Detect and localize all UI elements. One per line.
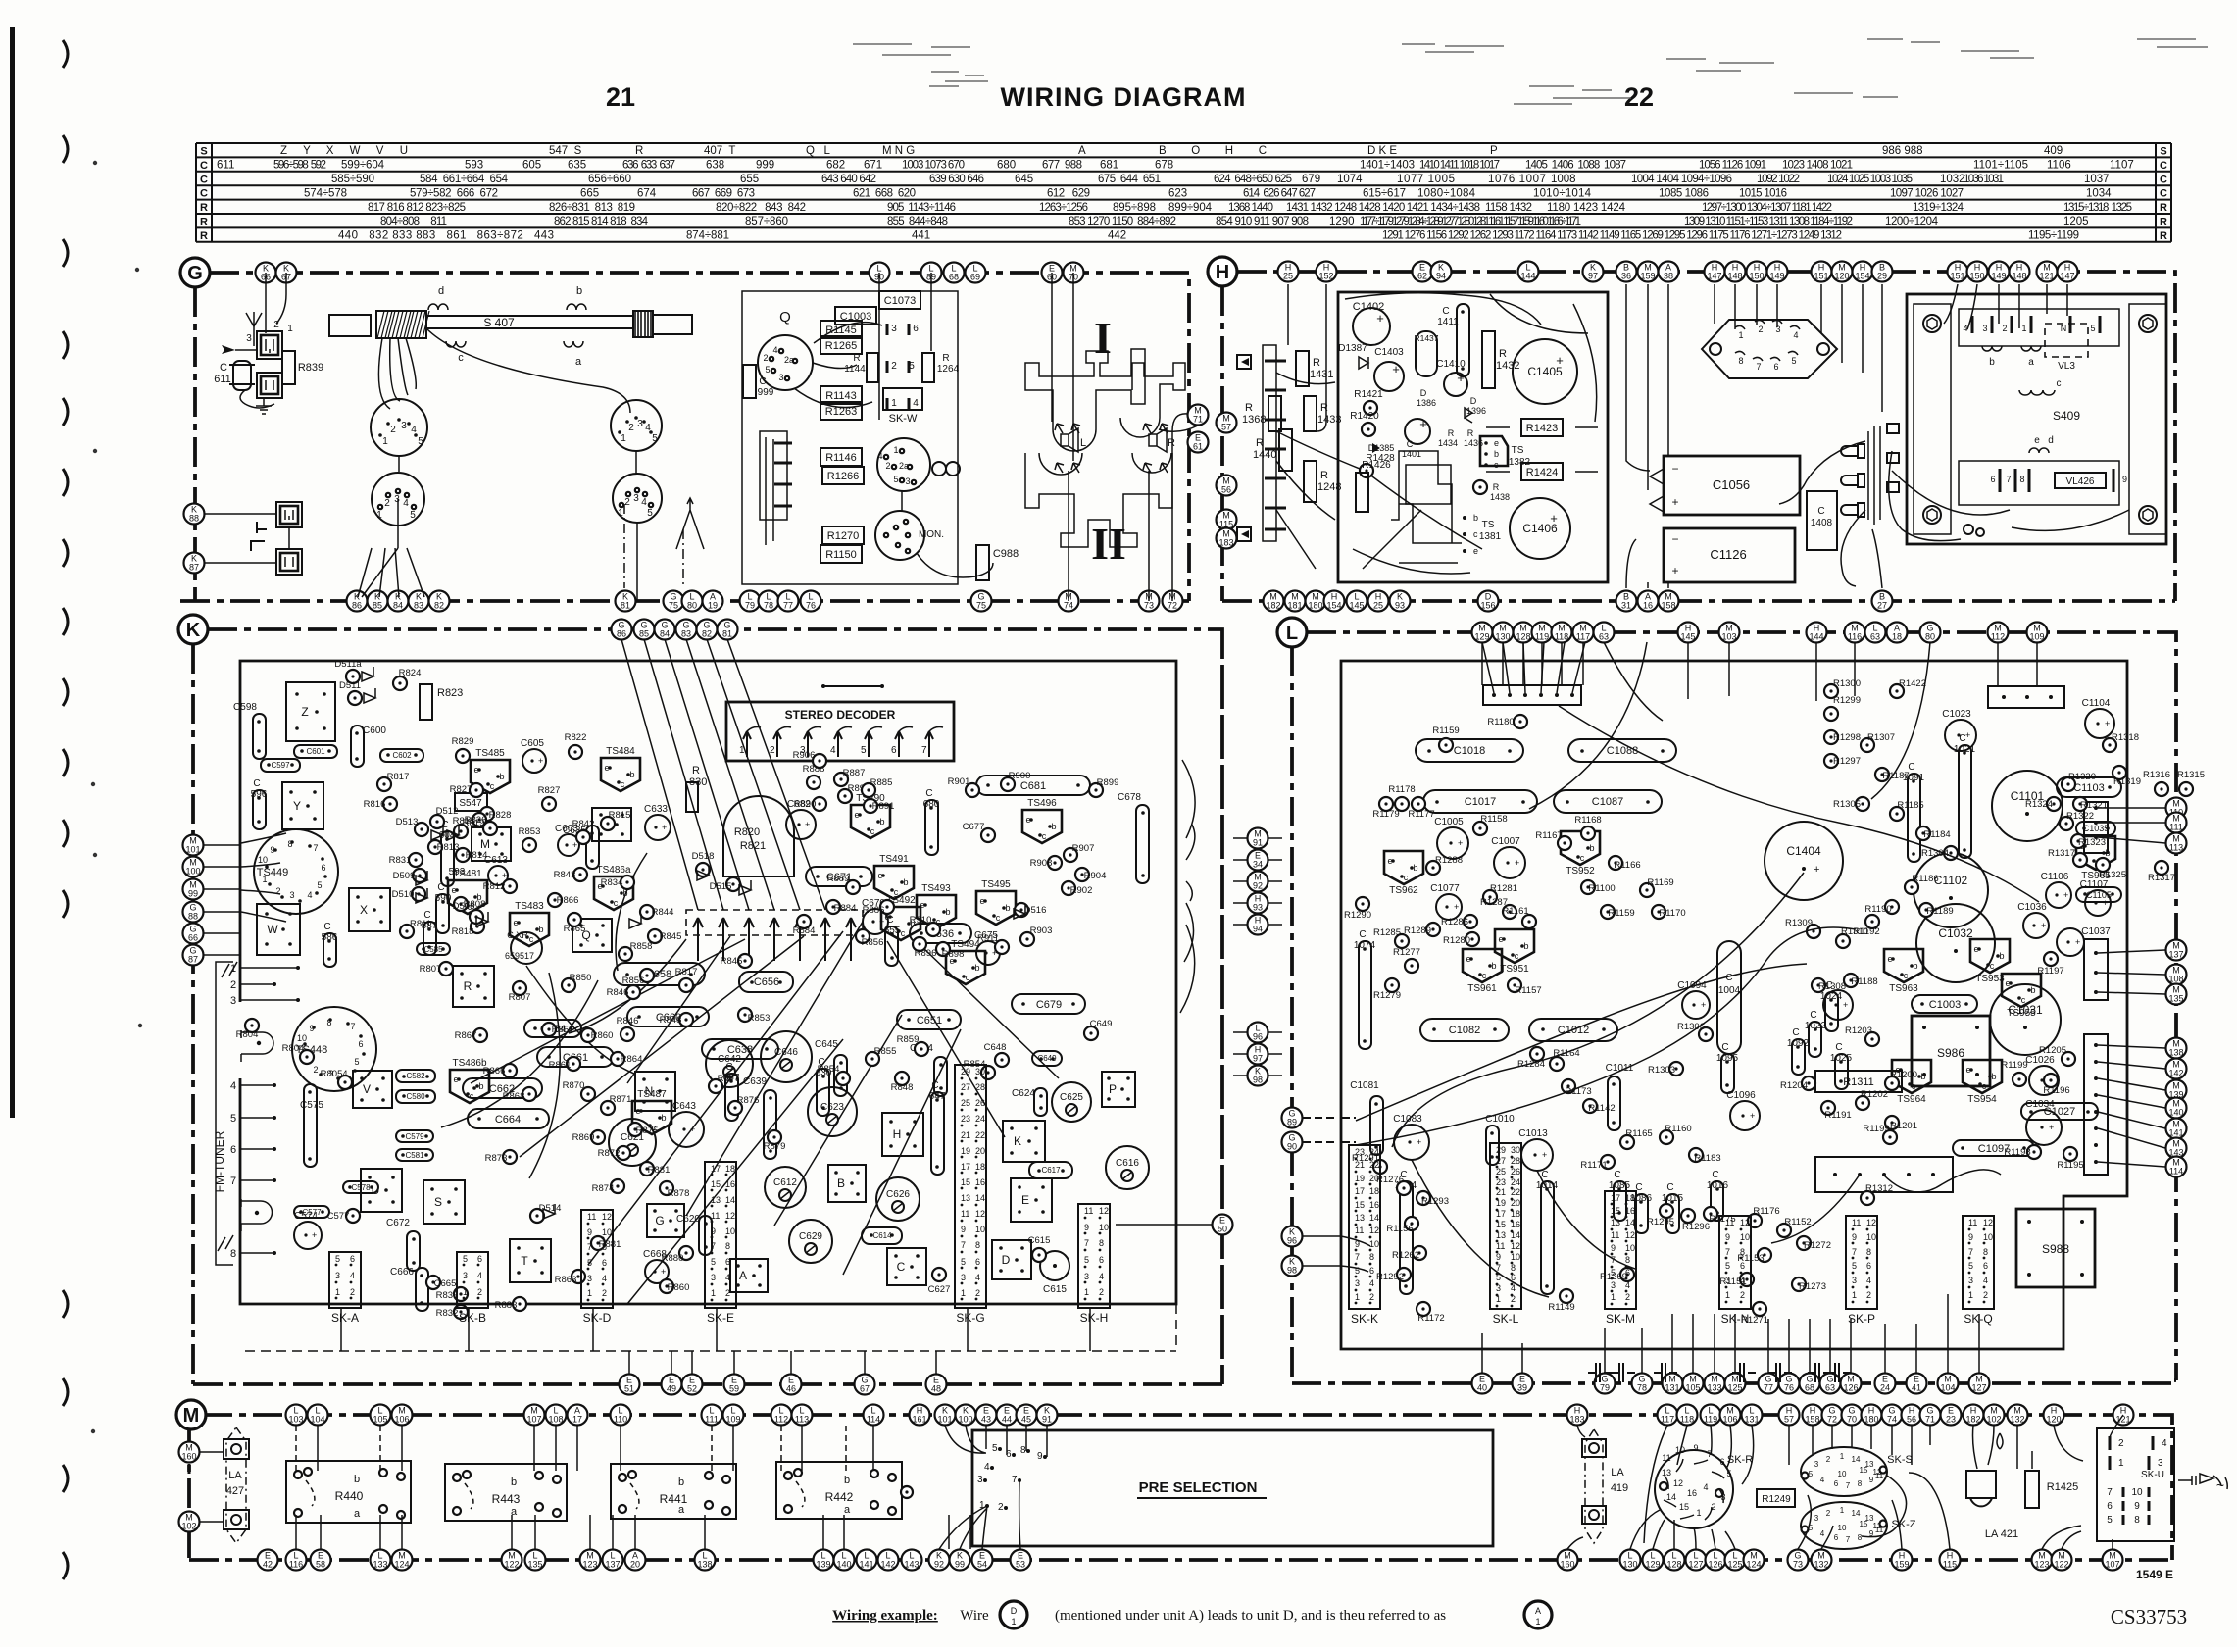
svg-text:C1404: C1404 (1786, 844, 1821, 858)
svg-text:+: + (538, 756, 543, 766)
node M102 (1984, 1405, 2005, 1426)
resistor R845 (738, 954, 752, 968)
svg-text:C575: C575 (300, 1100, 323, 1111)
svg-text:TS491: TS491 (879, 854, 909, 865)
rotary switch SK-R (1655, 1450, 1733, 1528)
svg-text:R1197: R1197 (2037, 966, 2063, 976)
resistor R1263 (820, 402, 862, 420)
svg-text:R1286: R1286 (1441, 917, 1468, 927)
node H97 (1248, 1044, 1268, 1065)
svg-text:C: C (1359, 929, 1366, 940)
svg-text:614 626 647 627: 614 626 647 627 (1243, 187, 1316, 199)
svg-text:101: 101 (937, 1415, 952, 1425)
svg-text:c: c (996, 913, 1001, 923)
svg-text:e: e (2034, 435, 2040, 446)
capacitor C611 (233, 361, 251, 390)
svg-text:7: 7 (230, 1176, 236, 1187)
svg-text:68: 68 (1805, 1383, 1814, 1393)
svg-text:+: + (1458, 838, 1463, 848)
svg-text:132: 132 (1814, 1560, 1828, 1570)
node L118 (1677, 1405, 1698, 1426)
svg-text:5: 5 (909, 361, 915, 372)
resistor R834 (621, 876, 634, 889)
svg-text:6: 6 (1369, 1266, 1374, 1276)
resistor R1423 (1521, 419, 1563, 436)
svg-text:R: R (464, 979, 472, 993)
svg-text:7: 7 (1756, 362, 1761, 372)
trimmer C616 (1106, 1146, 1149, 1189)
module E (1011, 1178, 1052, 1222)
svg-text:3: 3 (2158, 1458, 2163, 1469)
capacitor C1024 (1823, 990, 1853, 1020)
node M125 (1725, 1374, 1746, 1394)
svg-text:TS964: TS964 (1897, 1094, 1926, 1105)
ground (256, 398, 272, 414)
node M141 (2166, 1119, 2187, 1139)
svg-text:23: 23 (1355, 1147, 1365, 1157)
capacitor C672 (407, 1231, 420, 1271)
svg-text:149: 149 (1769, 272, 1784, 281)
svg-text:141: 141 (859, 1560, 873, 1570)
resistor R842 (576, 830, 590, 844)
node G67 (855, 1375, 875, 1395)
svg-text:C1003: C1003 (1929, 999, 1961, 1011)
svg-text:b: b (945, 907, 950, 917)
node M123 (580, 1550, 601, 1571)
unit K label (178, 615, 208, 644)
svg-text:4: 4 (1793, 330, 1798, 340)
L circuit board (1341, 661, 2127, 1349)
svg-text:R1308: R1308 (1818, 981, 1846, 992)
capacitor C678 (1136, 805, 1149, 883)
resistor R1285 (1395, 934, 1409, 948)
module T (510, 1239, 551, 1282)
svg-text:X: X (360, 903, 368, 917)
svg-text:23: 23 (1496, 1177, 1506, 1187)
svg-text:103: 103 (1721, 632, 1736, 642)
svg-text:D511: D511 (339, 680, 361, 691)
resistor R1202 (1856, 1096, 1869, 1110)
wire (205, 513, 276, 515)
capacitor C639 (764, 1090, 776, 1159)
resistor R817 (377, 777, 391, 791)
svg-text:5: 5 (335, 1254, 340, 1264)
svg-text:+: + (2105, 719, 2110, 728)
svg-text:25: 25 (961, 1098, 970, 1108)
svg-text:611: 611 (214, 374, 231, 385)
pad (901, 1486, 913, 1498)
svg-text:R817: R817 (675, 967, 698, 977)
node K83 (409, 591, 429, 612)
svg-text:99: 99 (955, 1560, 965, 1570)
relay R442 (776, 1462, 902, 1519)
svg-text:c: c (1404, 873, 1409, 882)
svg-text:C600: C600 (363, 726, 386, 736)
svg-text:R: R (853, 353, 860, 364)
node H148 (1725, 262, 1746, 282)
svg-text:9: 9 (1725, 1232, 1730, 1242)
resistor R886 (880, 900, 894, 914)
svg-text:C XR: C XR (507, 930, 528, 940)
svg-text:Wiring example:: Wiring example: (832, 1608, 938, 1624)
svg-text:2: 2 (313, 1065, 318, 1075)
svg-text:C1126: C1126 (1710, 547, 1746, 562)
svg-text:14: 14 (1852, 1455, 1861, 1464)
svg-text:R1198: R1198 (2004, 1147, 2030, 1158)
svg-text:30: 30 (975, 1067, 985, 1076)
svg-text:9: 9 (1611, 1243, 1616, 1253)
svg-text:R881: R881 (648, 1165, 671, 1176)
svg-text:1003 1073 670: 1003 1073 670 (902, 160, 965, 172)
svg-text:24: 24 (1369, 1147, 1379, 1157)
resistor R867 (473, 1028, 487, 1042)
module Y (282, 782, 323, 829)
capacitor C681 (976, 776, 1090, 795)
svg-text:584 661÷664 654: 584 661÷664 654 (420, 174, 509, 185)
binding marks (63, 40, 68, 68)
svg-text:R440: R440 (335, 1489, 364, 1503)
resistor R1168 (1581, 826, 1595, 840)
coil c (446, 341, 466, 347)
strip wires (341, 1308, 1090, 1351)
svg-text:1: 1 (382, 436, 388, 447)
node G87 (183, 945, 204, 966)
svg-text:c: c (1990, 961, 1995, 971)
svg-text:862 815 814 818 834: 862 815 814 818 834 (554, 216, 649, 227)
svg-text:R1188: R1188 (1851, 976, 1877, 987)
svg-text:TS483: TS483 (515, 901, 544, 912)
coil c (2019, 390, 2055, 395)
svg-text:SK-E: SK-E (707, 1311, 734, 1325)
svg-text:c: c (470, 1091, 474, 1101)
module Q (572, 919, 612, 952)
transistor TS1381 (1463, 516, 1466, 520)
svg-text:R: R (2160, 230, 2167, 242)
svg-text:C1035: C1035 (2083, 824, 2110, 833)
svg-text:636 633 637: 636 633 637 (622, 160, 675, 172)
svg-text:e: e (979, 896, 984, 906)
capacitor C638 (702, 1039, 778, 1059)
svg-text:C: C (2160, 160, 2167, 172)
svg-text:R864: R864 (621, 1054, 643, 1065)
wires S409 (1944, 284, 2067, 329)
svg-text:+: + (2041, 921, 2046, 930)
svg-text:R805: R805 (321, 1069, 343, 1079)
resistor R901 (966, 783, 979, 797)
svg-text:2: 2 (1625, 1292, 1630, 1302)
svg-text:R1159: R1159 (1608, 908, 1634, 919)
resistor C665 (426, 1276, 440, 1289)
svg-text:8: 8 (1511, 1263, 1516, 1273)
resistor R1198 (2027, 1145, 2041, 1159)
svg-text:5: 5 (1852, 1261, 1857, 1271)
capacitor C1082 (1420, 1019, 1509, 1041)
svg-text:111: 111 (2169, 823, 2183, 832)
svg-text:2: 2 (2002, 324, 2007, 333)
svg-text:9: 9 (1355, 1239, 1360, 1249)
svg-text:R872: R872 (598, 1148, 621, 1159)
node L133 (371, 1550, 391, 1571)
svg-text:3: 3 (905, 476, 910, 486)
svg-text:C585: C585 (423, 945, 443, 954)
fan wires from unit G (621, 639, 698, 910)
node M139 (2166, 1080, 2187, 1101)
svg-text:84: 84 (393, 601, 403, 611)
capacitor C1035 (2076, 822, 2115, 835)
svg-text:1200÷1204: 1200÷1204 (1885, 216, 1939, 227)
svg-text:TS955: TS955 (2007, 1008, 2036, 1019)
resistor R1153 (1758, 1248, 1771, 1262)
svg-text:SK-D: SK-D (583, 1311, 612, 1325)
svg-text:+: + (1542, 1150, 1547, 1160)
svg-text:14: 14 (1625, 1218, 1635, 1227)
svg-text:b: b (2030, 985, 2035, 995)
node L90 (870, 263, 890, 283)
resistor R885 (862, 783, 875, 797)
svg-text:C: C (253, 778, 260, 789)
svg-text:679: 679 (1302, 174, 1320, 185)
svg-text:R1285: R1285 (1373, 927, 1401, 938)
svg-text:8: 8 (1983, 1247, 1988, 1257)
svg-text:596÷598 592: 596÷598 592 (273, 160, 326, 172)
svg-text:e: e (1025, 815, 1030, 825)
svg-text:675 644 651: 675 644 651 (1098, 174, 1161, 185)
node E50 (1213, 1215, 1233, 1235)
svg-text:11: 11 (1662, 1453, 1670, 1463)
node E49 (662, 1375, 682, 1395)
resistor R1308 (1812, 978, 1825, 992)
svg-text:C1036: C1036 (2017, 902, 2047, 913)
unit L border (1292, 632, 2176, 1383)
resistor R826 (483, 822, 497, 835)
svg-text:8: 8 (725, 1241, 730, 1251)
svg-text:5: 5 (647, 508, 653, 519)
svg-text:6: 6 (1625, 1268, 1630, 1277)
resistor R906 (813, 754, 826, 768)
node K93 (1390, 591, 1411, 612)
resistor R1300 (1824, 684, 1838, 698)
svg-text:19: 19 (1355, 1174, 1365, 1183)
resistor R1281 (1483, 890, 1497, 904)
capacitor C1401 (1405, 419, 1430, 444)
node M116 (1845, 623, 1865, 643)
svg-text:a: a (2028, 357, 2034, 368)
node B36 (1616, 262, 1637, 282)
svg-text:826÷831 813 819: 826÷831 813 819 (549, 202, 635, 214)
capacitor C 630 (817, 1069, 829, 1116)
capacitor C1034 (2026, 1110, 2062, 1145)
svg-text:16: 16 (1511, 1220, 1520, 1229)
svg-text:79: 79 (1600, 1383, 1610, 1393)
svg-text:665: 665 (580, 187, 599, 199)
resistor R1273 (1792, 1277, 1806, 1291)
svg-text:11: 11 (1611, 1230, 1619, 1240)
node H115 (1940, 1550, 1961, 1571)
svg-text:999: 999 (758, 387, 774, 398)
svg-text:151: 151 (1814, 272, 1828, 281)
svg-text:10: 10 (1099, 1223, 1109, 1232)
svg-text:599÷604: 599÷604 (341, 160, 385, 172)
svg-text:C: C (897, 1260, 906, 1274)
svg-text:+: + (1701, 1000, 1706, 1010)
page spine line (10, 27, 15, 1118)
lamp LA421 (1966, 1471, 1996, 1506)
svg-text:113: 113 (2169, 843, 2183, 853)
resistor R1151 (1740, 1273, 1754, 1286)
svg-text:122: 122 (2054, 1560, 2068, 1570)
node M70 (1064, 263, 1084, 283)
capacitor C1003 (1912, 995, 1977, 1013)
wires from rod to socket (378, 338, 416, 409)
svg-text:e: e (1494, 438, 1499, 448)
svg-text:117: 117 (1576, 632, 1590, 642)
svg-text:R1190: R1190 (1864, 904, 1891, 915)
svg-text:C: C (1792, 1027, 1799, 1038)
svg-text:+: + (662, 823, 667, 832)
svg-text:14: 14 (1511, 1230, 1520, 1240)
node M122 (502, 1550, 522, 1571)
svg-text:R1249: R1249 (1762, 1494, 1791, 1505)
svg-text:R908: R908 (1030, 858, 1053, 869)
svg-text:R1185: R1185 (1897, 800, 1923, 811)
svg-text:3: 3 (1084, 1272, 1089, 1281)
diode (362, 667, 373, 681)
node K97 (1583, 262, 1604, 282)
svg-text:45: 45 (1021, 1415, 1031, 1425)
svg-text:TS963: TS963 (1889, 983, 1918, 994)
long wires L (1303, 1118, 1356, 1142)
node L63 (1865, 623, 1886, 643)
node L109 (723, 1405, 744, 1426)
capacitor C 586 (323, 933, 336, 967)
resistor R1201 (1885, 1116, 1899, 1129)
svg-text:WIRING DIAGRAM: WIRING DIAGRAM (1001, 82, 1247, 112)
resistor R815 (472, 813, 486, 826)
svg-text:D512: D512 (436, 806, 459, 817)
trimmer C612 (765, 1167, 806, 1208)
node K91 (1037, 1405, 1058, 1426)
resistor R1156 (1405, 1217, 1418, 1230)
resistor R1262 (1413, 1246, 1426, 1260)
node M71 (1188, 405, 1209, 426)
svg-text:1: 1 (230, 963, 236, 975)
svg-text:643 640 642: 643 640 642 (821, 174, 876, 185)
tuning gang bus (686, 910, 863, 935)
svg-text:R817: R817 (387, 772, 410, 782)
svg-text:C580: C580 (406, 1092, 425, 1101)
svg-text:1076 1007: 1076 1007 (1488, 174, 1546, 185)
svg-text:17: 17 (1496, 1209, 1506, 1219)
node E41 (1907, 1374, 1927, 1394)
svg-text:1: 1 (1355, 1292, 1360, 1302)
svg-text:73: 73 (1793, 1560, 1803, 1570)
transistor TS490 (851, 805, 890, 838)
arrow input (222, 345, 235, 354)
svg-text:C1010: C1010 (1485, 1114, 1515, 1125)
svg-text:130: 130 (1622, 1560, 1637, 1570)
svg-text:D511a: D511a (334, 659, 362, 670)
svg-text:C642: C642 (718, 1054, 741, 1065)
node L145 (1347, 591, 1367, 612)
capacitor C1406 (1510, 498, 1570, 559)
svg-text:18: 18 (1369, 1186, 1379, 1196)
svg-text:183: 183 (1218, 538, 1233, 548)
node B31 (1616, 591, 1637, 612)
svg-text:5: 5 (230, 1113, 236, 1125)
resistor R1296 (1681, 1209, 1695, 1223)
svg-text:43: 43 (981, 1415, 991, 1425)
svg-text:28: 28 (1511, 1156, 1520, 1166)
svg-text:80: 80 (1925, 632, 1935, 642)
svg-text:TS496: TS496 (1027, 798, 1057, 809)
resistor R 1440 (1279, 429, 1292, 471)
resistor R1195 (2063, 1147, 2077, 1161)
svg-text:+: + (1965, 730, 1970, 740)
node H149 (1767, 262, 1788, 282)
svg-text:17: 17 (572, 1415, 582, 1425)
capacitor C1023 (1945, 720, 1976, 751)
node K86 (347, 591, 368, 612)
svg-text:1074: 1074 (1354, 940, 1376, 951)
svg-text:R: R (200, 230, 208, 242)
svg-text:125: 125 (1727, 1383, 1742, 1393)
svg-text:S: S (434, 1195, 442, 1209)
svg-text:1315÷1318 1325: 1315÷1318 1325 (2063, 202, 2132, 214)
node M127 (1969, 1374, 1990, 1394)
resistor R888 (807, 776, 820, 789)
svg-text:8: 8 (1866, 1247, 1871, 1257)
svg-text:1: 1 (1725, 1290, 1730, 1300)
svg-text:R826: R826 (465, 815, 487, 826)
transistor TS487 (632, 1101, 671, 1134)
resistor R817 (679, 978, 693, 992)
svg-text:R1290: R1290 (1344, 910, 1371, 921)
svg-text:R1169: R1169 (1647, 877, 1673, 888)
svg-text:R1142: R1142 (1588, 1103, 1615, 1114)
svg-text:56: 56 (1907, 1415, 1916, 1425)
long pcb wires (1345, 293, 1597, 422)
connector SK-N (1719, 1216, 1751, 1309)
resistor D511 (348, 691, 362, 705)
svg-text:SK-L: SK-L (1493, 1312, 1519, 1326)
node G79 (1595, 1374, 1616, 1394)
svg-text:c: c (529, 934, 534, 944)
svg-text:b: b (1523, 941, 1528, 951)
svg-text:d: d (438, 285, 444, 297)
svg-text:C679: C679 (1036, 999, 1062, 1011)
svg-text:9: 9 (1037, 1451, 1043, 1462)
capacitor C 1086 (1635, 1194, 1648, 1233)
capacitor C585 (417, 943, 450, 955)
svg-text:1177÷1179 1279 1284÷1289 1277: 1177÷1179 1279 1284÷1289 1277 1280 1281 … (1360, 216, 1581, 227)
connector SK-E (705, 1162, 736, 1308)
svg-text:C: C (1541, 1170, 1548, 1180)
wire (200, 1521, 224, 1523)
resistor R860 (660, 1279, 673, 1293)
svg-text:2: 2 (1826, 1509, 1831, 1518)
resistor R1172 (1417, 1302, 1430, 1316)
svg-text:b: b (1494, 449, 1499, 459)
svg-text:+: + (502, 871, 507, 880)
node K96 (1282, 1226, 1303, 1247)
svg-text:1434: 1434 (1438, 438, 1458, 448)
svg-text:+: + (690, 1125, 695, 1134)
svg-text:124: 124 (394, 1560, 409, 1570)
svg-text:118: 118 (1680, 1415, 1694, 1425)
module M (472, 827, 511, 861)
node M137 (2166, 940, 2187, 961)
node K98 (1248, 1066, 1268, 1086)
